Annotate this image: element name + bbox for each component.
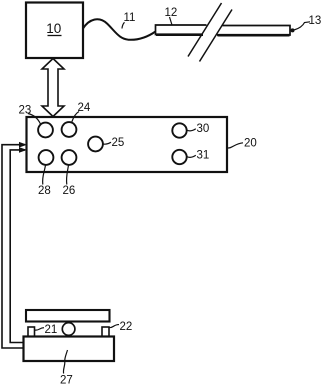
svg-text:23: 23 bbox=[19, 105, 32, 117]
svg-text:24: 24 bbox=[78, 102, 91, 114]
wire lower (inner loop) bbox=[10, 147, 27, 342]
svg-text:31: 31 bbox=[197, 150, 210, 162]
box 10 bbox=[26, 3, 83, 59]
rod 12 left segment bbox=[156, 25, 207, 35]
label 28 bbox=[38, 165, 51, 197]
svg-text:20: 20 bbox=[244, 138, 257, 150]
label 11 bbox=[122, 12, 135, 29]
circle 24 bbox=[62, 122, 77, 137]
svg-text:12: 12 bbox=[165, 7, 178, 19]
svg-text:21: 21 bbox=[45, 324, 58, 336]
base 27 bbox=[24, 337, 115, 362]
circle 23 bbox=[38, 123, 53, 138]
label 26 bbox=[63, 165, 76, 197]
break line right bbox=[200, 10, 233, 62]
label 30 bbox=[187, 123, 209, 135]
svg-text:28: 28 bbox=[38, 185, 51, 197]
rod 12 left bottom heavy edge bbox=[156, 33, 203, 36]
rect 20 bbox=[27, 117, 228, 172]
svg-text:26: 26 bbox=[63, 185, 76, 197]
label 23 bbox=[19, 105, 41, 125]
svg-text:11: 11 bbox=[124, 12, 136, 24]
tip dot 13 bbox=[291, 28, 295, 32]
label 20 bbox=[227, 138, 257, 150]
break line left bbox=[188, 3, 222, 57]
label 27 bbox=[60, 350, 73, 386]
label 31 bbox=[187, 150, 209, 162]
post 22 bbox=[102, 327, 109, 337]
svg-text:10: 10 bbox=[46, 21, 61, 36]
svg-text:27: 27 bbox=[60, 375, 73, 386]
ball bbox=[62, 323, 75, 336]
circle 28 bbox=[39, 150, 54, 165]
rod 12 right bottom heavy edge bbox=[218, 34, 290, 37]
cable 11 bbox=[83, 19, 156, 40]
label 25 bbox=[103, 137, 124, 149]
double-headed arrow bbox=[42, 59, 64, 117]
svg-text:25: 25 bbox=[112, 137, 125, 149]
label 24 bbox=[72, 102, 91, 122]
circle 30 bbox=[172, 123, 186, 137]
svg-text:22: 22 bbox=[120, 321, 133, 333]
label 21 bbox=[35, 324, 57, 336]
svg-text:30: 30 bbox=[197, 123, 210, 135]
svg-text:13: 13 bbox=[309, 15, 322, 27]
circle 25 bbox=[88, 137, 103, 152]
label 12 bbox=[165, 7, 178, 25]
circle 26 bbox=[62, 150, 77, 165]
rod 12 right segment bbox=[217, 26, 290, 36]
label 13 bbox=[294, 15, 321, 30]
circle 31 bbox=[172, 150, 186, 164]
wire upper (outer loop) bbox=[2, 142, 27, 348]
post 21 bbox=[28, 327, 35, 337]
stage top plate bbox=[26, 310, 110, 322]
label 22 bbox=[110, 321, 133, 333]
